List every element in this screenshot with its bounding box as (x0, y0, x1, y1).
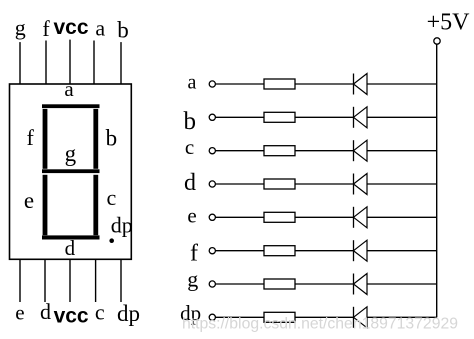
pin dp (bottom) (117, 259, 140, 326)
node e terminal (187, 203, 215, 227)
+5V bus wire (436, 45, 438, 318)
svg-text:a: a (64, 77, 74, 101)
pin e (bottom) (15, 259, 24, 324)
wire LED c to bus (367, 150, 437, 152)
LED d (354, 174, 368, 195)
svg-text:f: f (190, 240, 198, 266)
svg-text:d: d (184, 170, 196, 196)
svg-text:dp: dp (111, 213, 133, 238)
svg-text:c: c (107, 185, 117, 210)
wire dp to resistor (216, 316, 264, 318)
svg-text:g: g (187, 267, 198, 292)
wire LED d to bus (367, 183, 437, 185)
wire f to resistor (216, 250, 264, 252)
pin VCC (bottom) (54, 259, 89, 327)
segment f (27, 109, 48, 169)
pin b (top) (117, 18, 129, 85)
7-segment display package outline (10, 84, 132, 259)
svg-text:vcc: vcc (54, 304, 89, 327)
svg-text:g: g (15, 15, 26, 40)
LED dp (354, 307, 368, 328)
svg-text:a: a (188, 72, 197, 94)
wire b to resistor (216, 116, 264, 118)
wire Re to LED e (295, 216, 354, 218)
node dp terminal (180, 301, 215, 325)
wire LED g to bus (367, 283, 437, 285)
node d terminal (184, 170, 215, 196)
LED f (354, 240, 368, 261)
resistor Ra (264, 79, 295, 89)
svg-text:e: e (187, 203, 196, 227)
resistor Rdp (264, 312, 295, 322)
resistor Rf (264, 246, 295, 256)
LED b (354, 107, 368, 128)
svg-text:b: b (183, 108, 196, 135)
wire d to resistor (216, 183, 264, 185)
segment a (42, 77, 100, 108)
LED c (354, 140, 368, 161)
node g terminal (187, 267, 215, 292)
svg-text:https://blog.csdn.net/chen1897: https://blog.csdn.net/chen18971372929 (182, 316, 458, 333)
resistor Rb (264, 112, 295, 122)
svg-text:b: b (117, 18, 129, 43)
resistor Rg (264, 279, 295, 289)
svg-text:f: f (42, 16, 50, 41)
svg-text:vcc: vcc (53, 16, 88, 39)
LED g (354, 274, 368, 295)
wire Rd to LED d (295, 183, 354, 185)
node c terminal (185, 135, 215, 159)
wire LED a to bus (367, 83, 437, 85)
wire LED f to bus (367, 250, 437, 252)
pin f (top) (42, 16, 50, 84)
pin c (bottom) (95, 259, 105, 324)
svg-text:g: g (65, 141, 77, 166)
svg-text:e: e (15, 301, 24, 325)
svg-text:e: e (24, 188, 34, 213)
resistor Re (264, 212, 295, 222)
segment dp dot (109, 213, 132, 244)
svg-text:a: a (95, 15, 105, 40)
resistor Rc (264, 146, 295, 156)
LED e (354, 207, 368, 228)
segment e (24, 175, 48, 235)
wire a to resistor (216, 83, 264, 85)
svg-text:+5V: +5V (427, 10, 471, 36)
wire Rf to LED f (295, 250, 354, 252)
segment c (93, 175, 116, 235)
pin VCC (top) (53, 16, 88, 84)
svg-text:c: c (95, 300, 105, 325)
node f terminal (190, 240, 215, 266)
wire Rb to LED b (295, 116, 354, 118)
svg-text:f: f (27, 125, 35, 150)
pin d (bottom) (40, 259, 51, 324)
svg-text:d: d (40, 299, 51, 324)
resistor Rd (264, 179, 295, 189)
segment g (42, 141, 100, 173)
pin g (top) (15, 15, 26, 84)
pin a (top) (94, 15, 105, 84)
wire LED b to bus (367, 116, 437, 118)
segment d (42, 235, 100, 260)
segment b (93, 109, 117, 169)
wire Rc to LED c (295, 150, 354, 152)
svg-text:b: b (106, 125, 118, 150)
+5V terminal (434, 38, 440, 44)
wire g to resistor (216, 283, 264, 285)
wire Rg to LED g (295, 283, 354, 285)
wire c to resistor (216, 150, 264, 152)
wire LED e to bus (367, 216, 437, 218)
svg-text:c: c (185, 135, 194, 159)
node a terminal (188, 72, 216, 94)
svg-text:d: d (65, 236, 76, 260)
node b terminal (183, 108, 215, 135)
wire e to resistor (216, 216, 264, 218)
svg-text:dp: dp (117, 301, 140, 326)
wire Ra to LED a (295, 83, 354, 85)
wire LED dp to bus (367, 316, 437, 318)
LED a (354, 74, 368, 95)
wire Rdp to LED dp (295, 316, 354, 318)
